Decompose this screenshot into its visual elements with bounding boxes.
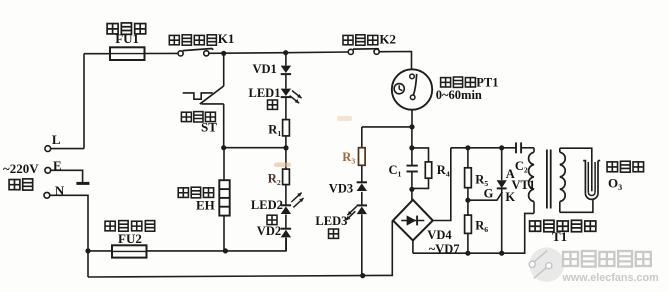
svg-text:LED2: LED2	[251, 198, 283, 212]
svg-text:VD3: VD3	[329, 181, 353, 195]
svg-text:K1: K1	[218, 31, 235, 46]
svg-text:www.elecfans.com: www.elecfans.com	[562, 272, 659, 284]
svg-text:E: E	[53, 158, 62, 173]
svg-text:L: L	[52, 132, 61, 147]
svg-text:FU1: FU1	[115, 31, 139, 46]
svg-text:VD2: VD2	[257, 224, 281, 238]
svg-text:~VD7: ~VD7	[429, 242, 460, 256]
svg-text:LED3: LED3	[315, 214, 347, 228]
svg-text:EH: EH	[196, 197, 215, 212]
svg-text:K2: K2	[379, 31, 396, 46]
svg-text:LED1: LED1	[249, 86, 281, 100]
svg-text:N: N	[55, 183, 65, 198]
svg-text:FU2: FU2	[118, 231, 142, 246]
svg-text:T1: T1	[552, 229, 567, 244]
svg-text:VD1: VD1	[253, 62, 277, 76]
svg-text:~220V: ~220V	[3, 161, 39, 176]
svg-text:ST: ST	[201, 119, 217, 134]
svg-text:VD4: VD4	[427, 228, 452, 242]
svg-text:0~60min: 0~60min	[436, 88, 482, 102]
svg-text:K: K	[505, 190, 515, 204]
svg-text:G: G	[484, 187, 494, 201]
